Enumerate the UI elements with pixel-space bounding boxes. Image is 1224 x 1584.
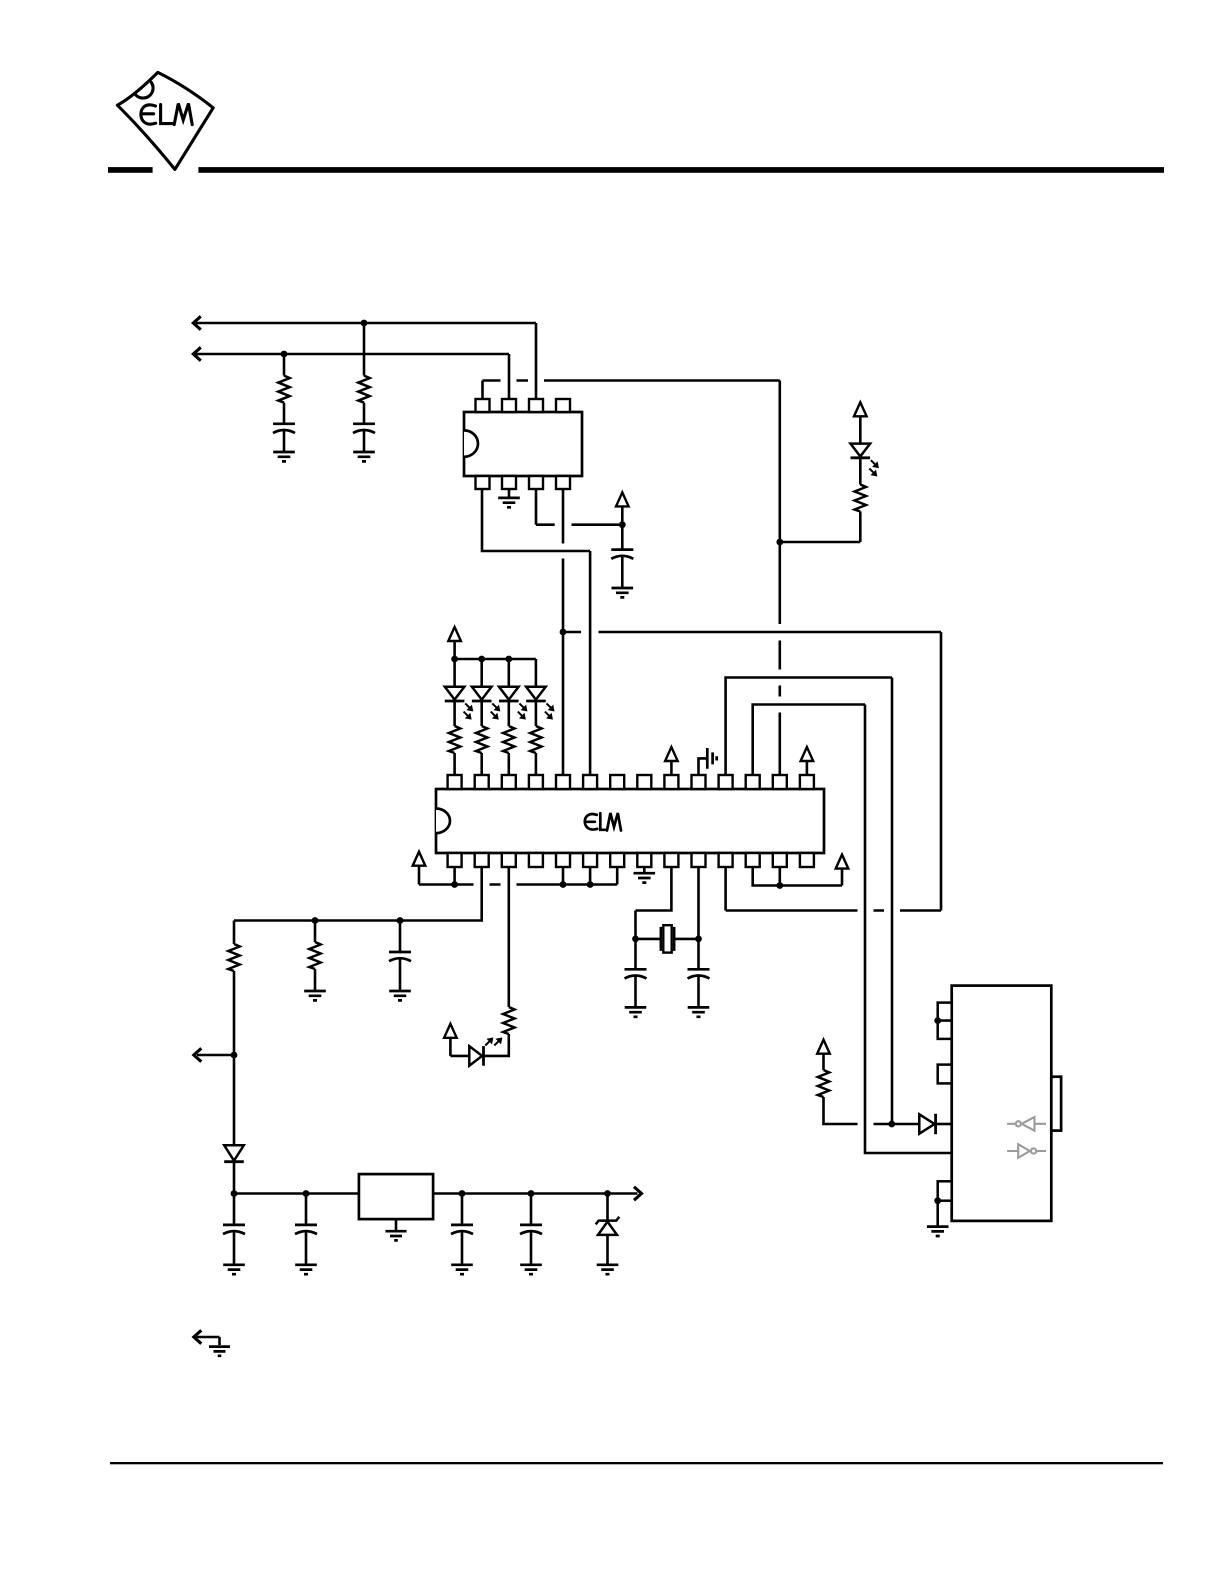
wire D1 to bottom rail: [233, 1163, 236, 1194]
wire R6 to U1 pin4 top: [535, 753, 538, 775]
ground below C1: [273, 452, 295, 461]
wire branch to R1: [283, 354, 286, 376]
arrowhead off-page (memory input): [194, 1048, 202, 1061]
wire branch to R9: [314, 921, 317, 943]
arrowhead off-page line 1: [193, 316, 201, 329]
U2 bottom pin 5: [476, 476, 490, 489]
RS232 pin tab C: [938, 1181, 952, 1200]
wire C3 to ground: [621, 556, 624, 587]
capacitor C9: [223, 1225, 245, 1234]
inverter gate 2 (gray, pointing right): [1007, 1144, 1046, 1158]
node tab C junction: [934, 1197, 941, 1204]
wire LED2 to R4: [480, 701, 483, 726]
wire LED bus power stem: [453, 641, 456, 659]
logo page-curl: [135, 82, 153, 98]
node junction on line 1: [361, 320, 368, 327]
resistor R11: [818, 1070, 829, 1097]
wire bus to LED3: [507, 659, 510, 687]
ground below C11: [451, 1265, 473, 1274]
wire node to off-page arrow: [197, 1054, 234, 1057]
capacitor C6: [389, 952, 411, 961]
wire R1 to C1: [283, 403, 286, 424]
wire U1 bottom Vdd rail (breaks at pin2b, pin3b columns): [419, 883, 617, 886]
wire R8 to node: [233, 971, 236, 1055]
ground below RS232 tab C: [927, 1227, 949, 1236]
wire LED1 to R3: [453, 701, 456, 726]
node rail junction x607: [604, 1190, 611, 1197]
LED6 (RS232 receive): [469, 1038, 502, 1066]
node junction x234/y1055: [231, 1052, 238, 1059]
wire R11 to RxD node (break at x865 crossing): [824, 1097, 920, 1124]
power arrow Vdd (right of U2): [616, 492, 629, 506]
LED4: [526, 687, 554, 719]
wire U2 b4 down to U1 pin5 column (break at y551 crossing): [562, 489, 565, 775]
node pin5b junction: [560, 881, 567, 888]
wire C8 to ground: [697, 976, 700, 1006]
power arrow on U1 pin14t: [801, 747, 814, 761]
ELM company logo (kite outline): [117, 72, 213, 169]
wire LED4 to R6: [535, 701, 538, 726]
wire U1 pin11t up-right-down to RS232 diode node: [726, 678, 892, 1125]
wire U1 pin2b down-left rail: [234, 867, 482, 921]
ground below C8: [688, 1007, 710, 1016]
wire U1 pin5b stub: [562, 867, 565, 885]
ground below C7: [625, 1007, 647, 1016]
ground below C3: [612, 588, 634, 597]
ground below C10: [295, 1265, 317, 1274]
resistor R9: [309, 942, 320, 969]
wire LED5 to power arrow: [859, 416, 862, 443]
ground below regulator: [386, 1231, 407, 1240]
wire C7 to ground: [634, 976, 637, 1006]
power arrow above R11: [817, 1040, 830, 1054]
node pin1b junction: [451, 881, 458, 888]
diode D2: [919, 1114, 935, 1134]
U2 bottom pin 7: [529, 476, 543, 489]
wire C10 column: [305, 1194, 308, 1264]
wire R10 to LED6: [484, 1034, 509, 1056]
RS232 pin tab A2: [938, 1021, 952, 1039]
header rule right segment: [198, 167, 1164, 173]
ground on U1 pin8b: [634, 873, 656, 882]
node bus junction 3: [505, 656, 512, 663]
capacitor C2: [353, 424, 375, 433]
ground chassis reference: [209, 1347, 230, 1356]
RS232 pin tab A1: [938, 1003, 952, 1021]
wire U1 pin14t power stem: [806, 761, 809, 775]
wire U2 b3 to Vdd node (break at b4 crossing): [536, 489, 622, 525]
wire C2 to ground: [363, 431, 366, 452]
wire Vdd arrow stem to node: [621, 506, 624, 524]
wire U2 b1 down-right to U1 pin6 column: [482, 489, 590, 775]
node rail junction x234: [231, 1190, 238, 1197]
LED1: [445, 687, 473, 719]
wire D2 to RS232 block: [937, 1123, 952, 1126]
node bus junction 1: [451, 656, 458, 663]
U2 top pin 1: [476, 399, 490, 412]
U2 bottom pin 6: [502, 476, 516, 489]
wire bottom power rail right of regulator: [433, 1192, 637, 1195]
wire U2 b2 to ground: [508, 489, 511, 497]
wire bus to LED2: [480, 659, 483, 687]
wire net y632 from U2.b4 column to x941 (break at pin6 column): [563, 632, 941, 911]
wire bottom power rail left of regulator: [234, 1192, 359, 1195]
wire rail to R8: [233, 921, 236, 945]
node bus junction 2: [478, 656, 485, 663]
wire branch to LED5: [780, 512, 861, 543]
resistor R7: [855, 485, 866, 512]
node tab A junction: [934, 1017, 941, 1024]
wire R5 to U1 pin3 top: [507, 753, 510, 775]
wire R4 to U1 pin2 top: [480, 753, 483, 775]
LED3: [499, 687, 527, 719]
node junction rail/C6: [397, 917, 404, 924]
capacitor C3: [611, 550, 633, 559]
wire pull-up power stem: [822, 1054, 825, 1070]
node crystal left junction: [632, 936, 639, 943]
node RxD junction: [888, 1121, 895, 1128]
wire C12 column: [530, 1194, 533, 1264]
capacitor C1: [273, 424, 295, 433]
wire U1 pin10t to chassis ground: [699, 758, 708, 775]
wire net y910 to U1 pin11 bottom (breaks at x865, x892): [726, 867, 941, 911]
wire branch to R2: [363, 323, 366, 376]
capacitor C7: [625, 969, 647, 978]
wire R3 to U1 pin1 top: [453, 753, 456, 775]
node crystal right junction: [695, 936, 702, 943]
crystal X1: [661, 925, 674, 952]
logo ELM text: [141, 104, 192, 125]
wire left Vdd arrow stem: [418, 866, 421, 885]
node junction on line 2: [281, 351, 288, 358]
node rail junction x462: [459, 1190, 466, 1197]
IC U1 (28-pin ELM) body: [436, 789, 824, 853]
capacitor C12: [520, 1225, 542, 1234]
wire C11 column: [461, 1194, 464, 1264]
wire R2 to C2: [363, 403, 366, 424]
wire U1 pin6b stub: [589, 867, 592, 885]
wire CAN line 2 (lower, to off-page left): [196, 354, 509, 399]
wire LED supply bus: [455, 658, 536, 661]
wire regulator ground stub: [395, 1219, 398, 1230]
resistor R5: [503, 726, 514, 753]
wire node to D1: [233, 1055, 236, 1145]
RS232 block right-side tab: [1051, 1077, 1061, 1131]
footer rule: [110, 1462, 1163, 1464]
inverter gate 1 (gray, pointing left): [1007, 1117, 1046, 1131]
power arrow above LED5: [854, 402, 867, 416]
resistor R1: [278, 376, 289, 403]
ground below Z1: [597, 1265, 619, 1274]
wire U1 pin1b stub: [453, 867, 456, 885]
U1 top pin boxes 1-14: [448, 775, 462, 789]
ground below C2: [353, 452, 375, 461]
wire U1 pin3b down to R10: [507, 867, 510, 1007]
power arrow right of U1 bottom: [836, 855, 849, 869]
ground below C12: [520, 1265, 542, 1274]
arrowhead chassis reference: [194, 1330, 202, 1343]
wire bus to LED4: [535, 659, 538, 687]
zener diode Z1: [596, 1217, 620, 1235]
header rule left segment: [108, 167, 153, 173]
capacitor C11: [451, 1225, 473, 1234]
resistor R8: [228, 944, 239, 971]
wire CAN line 1 (upper, to off-page left): [196, 323, 536, 399]
power arrow above LED6: [444, 1024, 457, 1038]
wire net U2.1 to U1 pin13 top (horizontal with crossing breaks): [483, 379, 780, 382]
wire node to C3: [621, 525, 624, 550]
node junction rail/R9: [312, 917, 319, 924]
wire tab C to ground: [936, 1201, 939, 1226]
capacitor C8: [688, 969, 710, 978]
wire U1 pin7b stub: [616, 867, 619, 885]
resistor R2: [358, 376, 369, 403]
RS232 interface block body: [952, 986, 1052, 1221]
ground below R9: [304, 991, 326, 1000]
U1 bottom pin boxes 1-14: [448, 853, 462, 867]
wire bus to LED1: [453, 659, 456, 687]
U2 top pin 3: [529, 399, 543, 412]
resistor R3: [449, 726, 460, 753]
voltage regulator U3: [359, 1174, 433, 1219]
capacitor C10: [295, 1225, 317, 1234]
U2 notch: [464, 430, 478, 456]
power arrow left of U1 bottom: [413, 852, 426, 866]
U2 top pin 4: [556, 399, 570, 412]
node pin13b junction: [776, 882, 783, 889]
wire U2 pin1 stub up: [481, 381, 484, 400]
U1 notch: [436, 809, 450, 834]
wire crystal right plate to pin10 column: [675, 938, 699, 941]
wire U1 pin10b down through node to C8: [697, 867, 700, 969]
wire zener column: [606, 1194, 609, 1264]
RS232 pin tab B: [938, 1065, 952, 1084]
node junction x780/y542: [776, 539, 783, 546]
node junction x563/y632: [560, 629, 567, 636]
wire LED3 to R5: [507, 701, 510, 726]
wire C1 to ground: [283, 431, 286, 452]
arrowhead off-page line 2: [193, 347, 201, 360]
resistor R10: [503, 1007, 514, 1034]
LED5 (top right): [851, 444, 879, 476]
wire C6 to ground: [399, 959, 402, 990]
node rail junction x306: [303, 1190, 310, 1197]
wire U1 pin8b ground stub: [643, 867, 646, 872]
arrowhead power rail output: [634, 1187, 642, 1200]
wire U1 pin9t power stem: [670, 761, 673, 775]
U1 ELM label: [585, 813, 621, 831]
wire U1 pin9b to crystal node: [636, 867, 672, 939]
IC U2 (8-pin transceiver) body: [464, 412, 582, 476]
node pin6b junction: [587, 881, 594, 888]
node rail junction x531: [528, 1190, 535, 1197]
wire LED6 to power arrow: [450, 1038, 469, 1056]
diode D1: [224, 1145, 244, 1161]
wire U1 pin12t up-right-down to RS232 input: [753, 705, 952, 1154]
wire C9 column: [233, 1194, 236, 1264]
power arrow above LED bus: [448, 627, 461, 641]
chassis ground on U1 pin10t: [707, 748, 716, 769]
wire U1 pin12b/13b to power arrow: [753, 867, 842, 886]
wire R9 to ground: [314, 969, 317, 990]
ground below U2 b2: [498, 498, 520, 507]
wire net vertical x780 (breaks at y632,677,704 crossings): [778, 381, 781, 776]
wire node to C7: [634, 939, 637, 969]
U2 bottom pin 8: [556, 476, 570, 489]
wire node to crystal left plate: [636, 938, 661, 941]
resistor R4: [476, 726, 487, 753]
ground below C9: [223, 1265, 245, 1274]
wire R7 to LED5: [859, 458, 862, 485]
power arrow on U1 pin9t: [665, 747, 678, 761]
U2 top pin 2: [502, 399, 516, 412]
LED2: [472, 687, 500, 719]
wire chassis reference arrow: [197, 1337, 220, 1345]
wire branch to C6: [399, 921, 402, 953]
ground below C6: [389, 991, 411, 1000]
resistor R6: [530, 726, 541, 753]
node Vdd junction: [619, 521, 626, 528]
